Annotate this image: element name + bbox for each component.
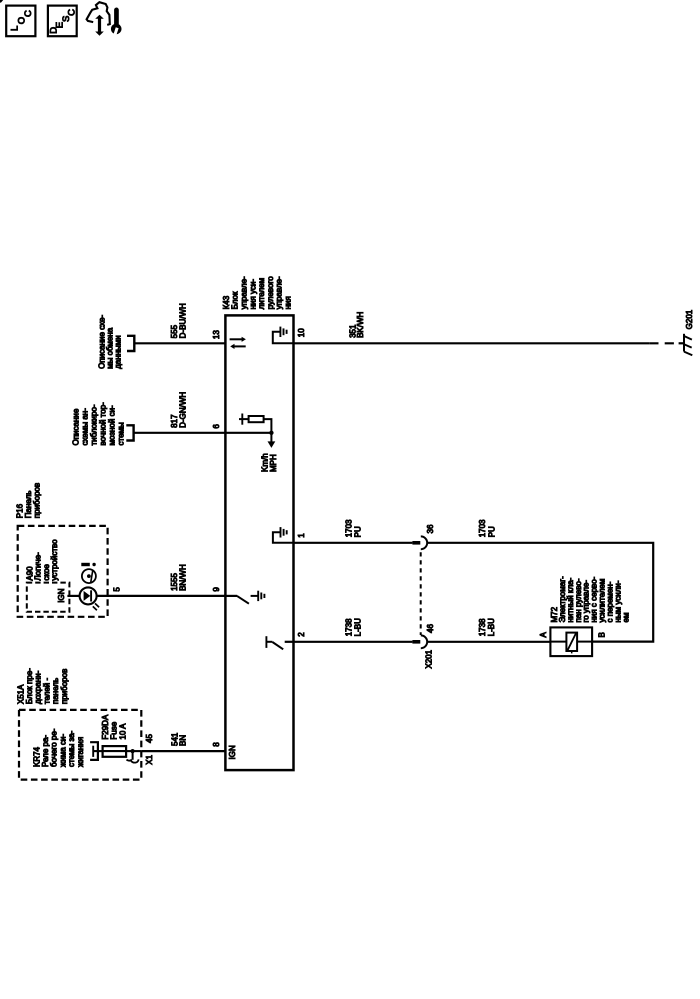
svg-text:лителем: лителем (257, 278, 266, 310)
svg-text:8: 8 (212, 742, 221, 747)
label P16 (16, 483, 42, 518)
pin 10 (297, 328, 306, 337)
gauge symbol with pointer (82, 569, 96, 583)
label F29DA Fuse 10 A (101, 714, 128, 740)
wire label 541 BN (171, 732, 188, 746)
label A90 (26, 539, 59, 581)
label X1 (145, 754, 154, 764)
svg-text:F29DA: F29DA (101, 714, 110, 740)
wire label 1738 L-BU left (345, 618, 363, 636)
svg-text:устройство: устройство (50, 539, 59, 581)
svg-text:BN: BN (178, 735, 187, 746)
indicator LED (steering warning lamp) (67, 587, 99, 610)
svg-text:тиблокиро-: тиблокиро- (89, 404, 98, 445)
internal ground path at pin 1 (273, 527, 294, 543)
label X201 (424, 649, 433, 668)
logic device A90 dashed box (27, 583, 70, 612)
wire 351 BK/WH (294, 342, 685, 344)
svg-text:Блок пре-: Блок пре- (25, 668, 34, 704)
icon LOC box (6, 6, 35, 37)
svg-text:1703: 1703 (345, 519, 354, 537)
off-page reference bracket (ABS) (126, 425, 133, 440)
relay contact KR74 (90, 742, 98, 760)
connector X201 dashed link (420, 552, 422, 635)
svg-text:ния: ния (284, 296, 293, 309)
terminal B (597, 632, 606, 637)
svg-text:телей -: телей - (42, 678, 51, 705)
svg-text:жима си-: жима си- (58, 734, 67, 767)
icon DESC box (48, 6, 78, 37)
pin 45 (145, 734, 154, 743)
label X51A (16, 668, 69, 704)
svg-text:мозной си-: мозной си- (107, 405, 116, 446)
wire 1555 BN/WH (97, 595, 225, 597)
pin 8 (212, 742, 221, 747)
svg-text:1738: 1738 (478, 618, 487, 636)
svg-text:Описание: Описание (71, 408, 80, 445)
wire label 817 D-GN/WH (170, 392, 188, 428)
svg-text:управле-: управле- (240, 276, 249, 309)
svg-text:BK/WH: BK/WH (356, 311, 365, 337)
svg-text:D-BU/WH: D-BU/WH (179, 303, 188, 338)
svg-text:X51A: X51A (16, 684, 25, 704)
svg-text:L-BU: L-BU (487, 618, 496, 636)
fuse F29DA 10A (103, 746, 127, 757)
wire label 351 BK/WH (348, 311, 365, 337)
svg-text:стемы: стемы (116, 422, 125, 446)
svg-text:6: 6 (212, 424, 221, 429)
svg-text:вочной тор-: вочной тор- (98, 402, 107, 446)
svg-text:D-GN/WH: D-GN/WH (179, 392, 188, 428)
label KR74 relay (32, 728, 85, 767)
internal switch at pin 2 (266, 636, 293, 649)
wire label 555 D-BU/WH (170, 303, 188, 338)
svg-text:G201: G201 (685, 309, 694, 329)
svg-text:L-BU: L-BU (354, 618, 363, 636)
svg-text:PU: PU (487, 526, 496, 537)
pin 13 (212, 330, 221, 339)
wire 817 D-GN/WH (134, 432, 226, 434)
svg-text:L: L (9, 26, 20, 31)
connector X1 junction dot and hook (127, 749, 139, 763)
svg-text:Реле ра-: Реле ра- (41, 735, 50, 767)
svg-text:бочего ре-: бочего ре- (50, 728, 59, 767)
in-line connector X201 pin 36 (412, 536, 427, 549)
wire label 1703 PU left (345, 519, 363, 537)
pin 5 (113, 587, 122, 592)
pin 2 (297, 632, 306, 637)
svg-text:10 A: 10 A (119, 723, 128, 740)
solenoid valve M72 box (550, 627, 592, 656)
label G201 (685, 309, 694, 329)
pin 9 (212, 587, 221, 592)
svg-text:приборов: приборов (60, 669, 69, 704)
fuse block X51A dashed box (19, 710, 141, 780)
svg-text:10: 10 (297, 328, 306, 337)
svg-text:5: 5 (113, 587, 122, 592)
instrument panel P16 dashed box (18, 526, 108, 617)
pin 46 (426, 624, 435, 633)
svg-text:Блок: Блок (231, 291, 240, 309)
svg-text:2: 2 (297, 632, 306, 637)
svg-text:ем: ем (621, 613, 630, 623)
svg-text:36: 36 (426, 524, 435, 533)
wire 1738 L-BU (X201 to M72 A) (427, 641, 550, 643)
label K43 module name (222, 276, 293, 310)
label: data link circuit description (98, 315, 123, 369)
label IGN (cluster) (57, 588, 66, 602)
internal ground path at pin 10 (273, 327, 294, 344)
svg-text:C: C (23, 10, 34, 17)
wire label 1738 L-BU right (478, 618, 496, 636)
svg-text:X1: X1 (145, 754, 154, 764)
svg-text:13: 13 (212, 330, 221, 339)
svg-text:стемы за-: стемы за- (67, 730, 76, 767)
solenoid element (550, 633, 592, 654)
svg-text:BN/WH: BN/WH (178, 564, 187, 591)
icon component-location arrow + wrench (87, 2, 122, 36)
svg-text:9: 9 (212, 587, 221, 592)
svg-text:MPH: MPH (269, 454, 278, 472)
in-line connector X201 pin 46 (412, 635, 427, 648)
svg-text:дохрани-: дохрани- (34, 670, 43, 704)
label IGN (module internal) (228, 745, 237, 759)
pin 36 (426, 524, 435, 533)
label: ABS circuit description (71, 402, 125, 446)
svg-text:C: C (66, 9, 77, 16)
svg-text:схемы ан-: схемы ан- (80, 408, 89, 446)
ground G201 (684, 334, 692, 355)
wire fuse to connector X1 (126, 750, 141, 752)
wire 1703 PU (module to X201) (294, 542, 413, 544)
svg-text:1703: 1703 (478, 519, 487, 537)
svg-text:К43: К43 (222, 295, 231, 309)
label M72 solenoid description (550, 576, 631, 623)
wire label 1555 BN/WH (170, 564, 187, 591)
wire 541 BN (141, 750, 225, 752)
pin 1 (297, 533, 306, 538)
svg-text:X201: X201 (424, 649, 433, 668)
serial data arrows inside module (230, 337, 246, 349)
wire 1703 PU (X201 to M72 B) (427, 543, 653, 642)
wire relay to fuse (93, 750, 102, 752)
warning exclamation mark (81, 563, 96, 566)
svg-text:рулевого: рулевого (266, 276, 275, 310)
terminal A (539, 632, 548, 638)
svg-text:1: 1 (297, 533, 306, 538)
svg-text:46: 46 (426, 624, 435, 633)
off-page reference bracket (data link) (127, 336, 134, 351)
svg-text:Fuse: Fuse (110, 721, 119, 739)
svg-text:IGN: IGN (228, 745, 237, 759)
svg-text:ния уси-: ния уси- (248, 279, 257, 310)
svg-text:данными: данными (114, 335, 123, 369)
svg-text:45: 45 (145, 734, 154, 743)
ECU module K43 box (225, 315, 293, 770)
svg-text:KR74: KR74 (32, 746, 41, 767)
label Km/h MPH (261, 453, 279, 472)
svg-text:1738: 1738 (345, 618, 354, 636)
pin 6 (212, 424, 221, 429)
wire 555 D-BU/WH (134, 342, 225, 344)
svg-text:B: B (597, 632, 606, 637)
wire 1738 L-BU (module to X201) (294, 641, 413, 643)
svg-text:панель: панель (51, 678, 60, 704)
internal switch to ground at pin 9 (225, 596, 258, 604)
svg-text:IGN: IGN (57, 588, 66, 602)
svg-text:A: A (539, 632, 548, 638)
svg-text:PU: PU (354, 526, 363, 537)
internal speed signal resistor + arrow Km/h MPH (225, 414, 275, 448)
wire label 1703 PU right (478, 519, 496, 537)
svg-text:управле-: управле- (275, 276, 284, 309)
svg-text:приборов: приборов (33, 483, 42, 518)
svg-text:жигания: жигания (76, 737, 85, 767)
page corner mark (0, 0, 3, 3)
